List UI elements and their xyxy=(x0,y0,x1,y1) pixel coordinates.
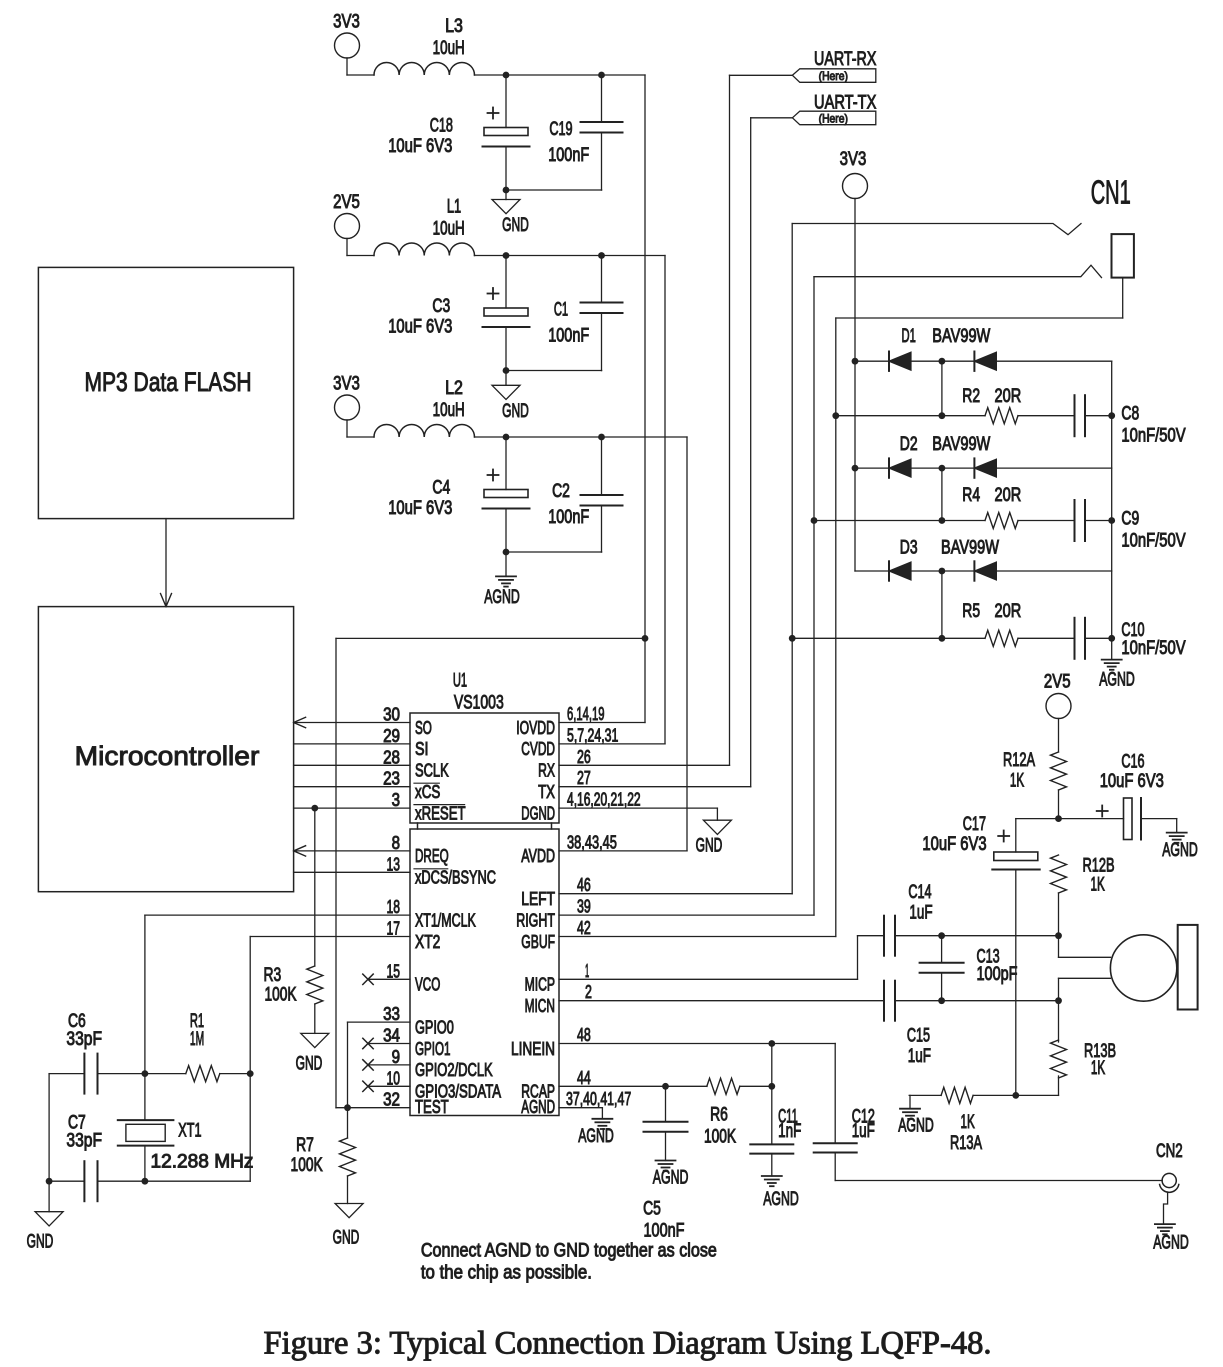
svg-text:2V5: 2V5 xyxy=(333,192,360,213)
svg-text:MICN: MICN xyxy=(525,996,555,1016)
svg-text:D1: D1 xyxy=(902,326,916,347)
svg-text:AGND: AGND xyxy=(484,587,520,608)
svg-text:C5: C5 xyxy=(643,1198,661,1219)
svg-text:TX: TX xyxy=(538,782,555,802)
svg-text:100K: 100K xyxy=(264,985,296,1006)
svg-text:C15: C15 xyxy=(907,1026,930,1047)
svg-text:RIGHT: RIGHT xyxy=(516,910,555,930)
svg-text:BAV99W: BAV99W xyxy=(932,434,990,455)
svg-text:10nF/50V: 10nF/50V xyxy=(1121,531,1185,552)
svg-text:100K: 100K xyxy=(704,1127,736,1148)
svg-text:10uH: 10uH xyxy=(433,400,465,421)
svg-text:28: 28 xyxy=(383,747,400,767)
svg-text:29: 29 xyxy=(383,726,400,746)
svg-text:Microcontroller: Microcontroller xyxy=(75,741,260,771)
svg-text:C3: C3 xyxy=(432,296,450,317)
svg-text:100pF: 100pF xyxy=(977,964,1018,985)
svg-text:to the chip as possible.: to the chip as possible. xyxy=(421,1263,592,1284)
svg-text:20R: 20R xyxy=(995,386,1022,407)
svg-text:LINEIN: LINEIN xyxy=(511,1039,555,1059)
svg-text:XT1/MCLK: XT1/MCLK xyxy=(415,910,476,930)
svg-text:1nF: 1nF xyxy=(778,1121,801,1142)
svg-text:100nF: 100nF xyxy=(644,1220,685,1241)
svg-text:LEFT: LEFT xyxy=(521,889,555,909)
svg-text:26: 26 xyxy=(577,747,591,767)
svg-text:100nF: 100nF xyxy=(548,326,589,347)
svg-text:10uF 6V3: 10uF 6V3 xyxy=(388,498,452,519)
svg-text:SI: SI xyxy=(415,739,429,759)
svg-text:xRESET: xRESET xyxy=(415,803,466,823)
svg-text:15: 15 xyxy=(387,961,401,981)
svg-text:AGND: AGND xyxy=(763,1189,799,1210)
svg-text:C4: C4 xyxy=(432,478,450,499)
svg-text:10: 10 xyxy=(387,1068,401,1088)
svg-text:C2: C2 xyxy=(552,481,570,502)
svg-text:33: 33 xyxy=(383,1004,400,1024)
svg-text:VS1003: VS1003 xyxy=(454,692,504,713)
svg-text:10uF 6V3: 10uF 6V3 xyxy=(388,317,452,338)
svg-text:C19: C19 xyxy=(549,119,572,140)
svg-text:1K: 1K xyxy=(1090,875,1104,896)
svg-text:2: 2 xyxy=(585,982,592,1002)
svg-text:C17: C17 xyxy=(963,814,986,835)
svg-text:4,16,20,21,22: 4,16,20,21,22 xyxy=(567,790,641,810)
svg-text:10uF 6V3: 10uF 6V3 xyxy=(1100,771,1164,792)
svg-text:R12B: R12B xyxy=(1082,855,1114,876)
svg-text:D3: D3 xyxy=(900,537,918,558)
svg-text:GND: GND xyxy=(27,1232,54,1253)
svg-text:C14: C14 xyxy=(908,882,931,903)
svg-text:10uF 6V3: 10uF 6V3 xyxy=(922,834,986,855)
svg-text:IOVDD: IOVDD xyxy=(516,718,555,738)
svg-text:1K: 1K xyxy=(1010,771,1024,792)
svg-text:L1: L1 xyxy=(447,197,461,218)
svg-text:3V3: 3V3 xyxy=(333,12,360,33)
svg-text:R4: R4 xyxy=(962,485,980,506)
svg-text:27: 27 xyxy=(577,768,591,788)
svg-text:R2: R2 xyxy=(962,386,980,407)
svg-text:(Here): (Here) xyxy=(819,69,848,83)
svg-text:44: 44 xyxy=(577,1068,591,1088)
svg-text:R3: R3 xyxy=(264,965,282,986)
svg-text:MP3 Data FLASH: MP3 Data FLASH xyxy=(84,367,251,397)
svg-text:33pF: 33pF xyxy=(66,1130,102,1151)
svg-text:AGND: AGND xyxy=(578,1126,614,1147)
svg-text:RX: RX xyxy=(538,761,555,781)
svg-text:xCS: xCS xyxy=(415,782,440,802)
svg-text:R12A: R12A xyxy=(1003,750,1035,771)
svg-text:GPIO1: GPIO1 xyxy=(415,1039,451,1059)
svg-text:AVDD: AVDD xyxy=(521,846,555,866)
svg-text:100K: 100K xyxy=(291,1155,323,1176)
svg-text:DREQ: DREQ xyxy=(415,846,449,866)
svg-text:BAV99W: BAV99W xyxy=(941,537,999,558)
svg-text:CVDD: CVDD xyxy=(521,739,555,759)
svg-text:GND: GND xyxy=(502,215,529,236)
svg-text:17: 17 xyxy=(387,919,401,939)
svg-text:1uF: 1uF xyxy=(909,903,932,924)
svg-text:38,43,45: 38,43,45 xyxy=(567,832,617,852)
svg-text:18: 18 xyxy=(387,897,401,917)
svg-text:TEST: TEST xyxy=(415,1097,449,1117)
svg-text:3V3: 3V3 xyxy=(840,149,867,170)
svg-text:2V5: 2V5 xyxy=(1044,672,1071,693)
svg-text:R7: R7 xyxy=(296,1135,314,1156)
svg-text:10uH: 10uH xyxy=(433,219,465,240)
svg-text:(Here): (Here) xyxy=(819,112,848,126)
svg-text:R5: R5 xyxy=(962,601,980,622)
svg-text:AGND: AGND xyxy=(1153,1233,1189,1254)
svg-text:L3: L3 xyxy=(445,16,463,37)
svg-text:GPIO2/DCLK: GPIO2/DCLK xyxy=(415,1060,493,1080)
svg-text:L2: L2 xyxy=(445,378,463,399)
svg-text:13: 13 xyxy=(387,854,401,874)
svg-text:GPIO0: GPIO0 xyxy=(415,1017,454,1037)
svg-text:C1: C1 xyxy=(554,300,568,321)
svg-text:32: 32 xyxy=(383,1090,400,1110)
svg-text:AGND: AGND xyxy=(521,1097,555,1117)
svg-text:1K: 1K xyxy=(960,1112,974,1133)
svg-text:33pF: 33pF xyxy=(66,1029,102,1050)
svg-text:VCO: VCO xyxy=(415,975,440,995)
svg-text:GND: GND xyxy=(696,836,723,857)
svg-text:R13A: R13A xyxy=(950,1133,982,1154)
svg-text:30: 30 xyxy=(383,705,400,725)
svg-text:5,7,24,31: 5,7,24,31 xyxy=(567,725,618,745)
svg-text:xDCS/BSYNC: xDCS/BSYNC xyxy=(415,868,496,888)
svg-text:GND: GND xyxy=(296,1053,323,1074)
svg-text:9: 9 xyxy=(392,1047,400,1067)
svg-text:37,40,41,47: 37,40,41,47 xyxy=(566,1089,631,1109)
svg-text:CN1: CN1 xyxy=(1091,174,1131,211)
svg-text:SCLK: SCLK xyxy=(415,761,449,781)
svg-text:6,14,19: 6,14,19 xyxy=(567,704,605,724)
svg-text:23: 23 xyxy=(383,769,400,789)
svg-text:34: 34 xyxy=(383,1026,400,1046)
svg-text:C18: C18 xyxy=(430,116,453,137)
svg-text:AGND: AGND xyxy=(898,1116,934,1137)
svg-text:MICP: MICP xyxy=(525,975,555,995)
svg-text:Figure 3: Typical Connection D: Figure 3: Typical Connection Diagram Usi… xyxy=(264,1326,992,1362)
svg-text:Connect AGND to GND together a: Connect AGND to GND together as close xyxy=(421,1240,717,1261)
svg-text:39: 39 xyxy=(577,897,591,917)
svg-text:DGND: DGND xyxy=(521,803,555,823)
svg-text:C9: C9 xyxy=(1121,509,1139,530)
svg-text:3: 3 xyxy=(392,790,400,810)
svg-text:AGND: AGND xyxy=(653,1168,689,1189)
svg-text:1M: 1M xyxy=(190,1029,204,1050)
svg-text:XT1: XT1 xyxy=(178,1121,201,1142)
svg-text:3V3: 3V3 xyxy=(333,374,360,395)
svg-text:42: 42 xyxy=(577,918,591,938)
svg-text:100nF: 100nF xyxy=(548,145,589,166)
svg-text:U1: U1 xyxy=(453,671,467,692)
svg-text:UART-TX: UART-TX xyxy=(814,93,877,114)
svg-text:BAV99W: BAV99W xyxy=(932,326,990,347)
svg-text:R6: R6 xyxy=(710,1105,728,1126)
svg-text:10uH: 10uH xyxy=(433,38,465,59)
svg-text:AGND: AGND xyxy=(1099,670,1135,691)
svg-text:GND: GND xyxy=(333,1228,360,1249)
svg-text:10nF/50V: 10nF/50V xyxy=(1121,638,1185,659)
svg-text:GND: GND xyxy=(502,401,529,422)
svg-text:10nF/50V: 10nF/50V xyxy=(1121,426,1185,447)
svg-text:46: 46 xyxy=(577,875,591,895)
svg-text:C8: C8 xyxy=(1121,404,1139,425)
svg-text:10uF 6V3: 10uF 6V3 xyxy=(388,136,452,157)
svg-text:100nF: 100nF xyxy=(548,507,589,528)
svg-text:CN2: CN2 xyxy=(1156,1141,1183,1162)
svg-text:1K: 1K xyxy=(1091,1058,1105,1079)
svg-text:D2: D2 xyxy=(900,434,918,455)
svg-text:12.288 MHz: 12.288 MHz xyxy=(151,1152,254,1173)
svg-text:1: 1 xyxy=(585,961,589,981)
svg-text:C16: C16 xyxy=(1121,752,1144,773)
svg-text:20R: 20R xyxy=(995,485,1022,506)
svg-text:GBUF: GBUF xyxy=(521,932,555,952)
svg-text:1uF: 1uF xyxy=(908,1046,931,1067)
svg-text:8: 8 xyxy=(392,833,400,853)
svg-text:1uF: 1uF xyxy=(852,1121,875,1142)
svg-text:20R: 20R xyxy=(995,601,1022,622)
svg-text:48: 48 xyxy=(577,1025,591,1045)
svg-text:AGND: AGND xyxy=(1162,840,1198,861)
svg-text:SO: SO xyxy=(415,718,432,738)
svg-text:XT2: XT2 xyxy=(415,932,440,952)
svg-text:UART-RX: UART-RX xyxy=(814,49,877,70)
